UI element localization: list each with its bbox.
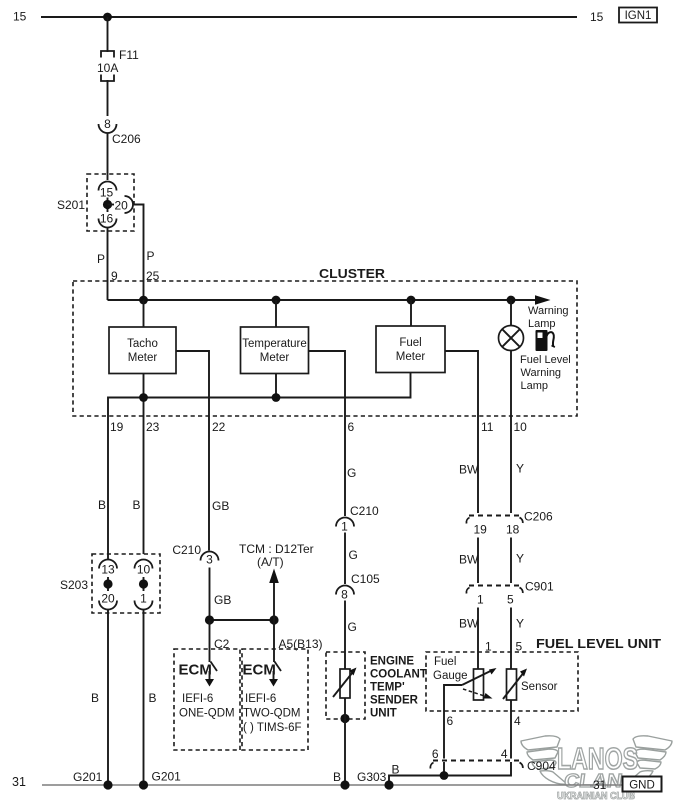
svg-text:15: 15 bbox=[590, 10, 604, 24]
svg-text:(A/T): (A/T) bbox=[257, 555, 284, 569]
svg-text:Warning: Warning bbox=[528, 305, 569, 317]
ground G303 bbox=[340, 770, 393, 790]
svg-text:S203: S203 bbox=[60, 578, 88, 592]
wire: lamp down to pin 10 bbox=[510, 351, 512, 514]
svg-text:8: 8 bbox=[104, 117, 111, 131]
S203 terminal 10 bbox=[135, 560, 153, 577]
svg-text:Y: Y bbox=[516, 552, 524, 566]
svg-text:4: 4 bbox=[501, 747, 508, 761]
connector C105 pin 8 bbox=[336, 572, 380, 602]
fuse F11 10A bbox=[97, 48, 139, 81]
splice pack S201 bbox=[57, 174, 134, 231]
ECM box (IEFI-6 TWO-QDM TIMS-6F) bbox=[242, 649, 308, 750]
svg-text:B: B bbox=[133, 498, 141, 512]
CLUSTER dashed enclosure bbox=[73, 281, 577, 416]
wire: fuel meter right output to pin 11 bbox=[445, 351, 478, 513]
wire: sender to G303 (B) bbox=[344, 698, 346, 785]
connector C210 pin 1 bbox=[336, 504, 379, 534]
svg-text:G: G bbox=[349, 548, 358, 562]
svg-text:Temperature: Temperature bbox=[242, 338, 307, 350]
svg-text:ECM: ECM bbox=[179, 662, 212, 679]
wire: cluster lower ground bus bbox=[108, 373, 411, 417]
svg-text:13: 13 bbox=[101, 563, 115, 577]
mechanical link gauge-sensor (dashed arrow) bbox=[463, 689, 493, 699]
svg-text:F11: F11 bbox=[119, 48, 139, 62]
wire: C210-3 to ECM junction (GB) bbox=[209, 568, 211, 621]
svg-text:G201: G201 bbox=[152, 770, 182, 784]
wire: S203-20 to ground G201 (B) bbox=[107, 610, 109, 786]
svg-text:C210: C210 bbox=[350, 504, 379, 518]
wire: bus to fuel meter bbox=[410, 300, 412, 326]
svg-text:15: 15 bbox=[100, 186, 114, 200]
svg-text:10: 10 bbox=[137, 563, 151, 577]
wire: junction down to ECM C2 bbox=[209, 620, 211, 662]
ECM box (IEFI-6 ONE-QDM) bbox=[174, 649, 240, 750]
svg-text:C210: C210 bbox=[172, 543, 201, 557]
svg-text:IEFI-6: IEFI-6 bbox=[245, 693, 276, 705]
FUEL LEVEL UNIT dashed enclosure bbox=[426, 652, 578, 711]
junction: pin6 / B line bbox=[440, 771, 449, 780]
svg-text:C904: C904 bbox=[527, 759, 556, 773]
svg-text:G: G bbox=[347, 466, 356, 480]
svg-text:G: G bbox=[348, 620, 357, 634]
Tacho Meter box bbox=[109, 327, 176, 374]
svg-text:P: P bbox=[97, 252, 105, 266]
fuel gauge (variable resistor) bbox=[462, 668, 497, 700]
svg-text:16: 16 bbox=[100, 212, 114, 226]
wire: C105 to coolant sender (G) bbox=[344, 601, 346, 670]
svg-text:IGN1: IGN1 bbox=[625, 10, 652, 22]
svg-text:Fuel: Fuel bbox=[399, 337, 421, 349]
svg-text:C206: C206 bbox=[112, 132, 141, 146]
S201 terminal 15 bbox=[99, 182, 117, 200]
svg-text:GB: GB bbox=[212, 499, 229, 513]
junction: bus / temperature feed bbox=[272, 296, 281, 305]
svg-text:19: 19 bbox=[474, 523, 488, 537]
ENGINE COOLANT TEMP SENDER UNIT box bbox=[326, 652, 427, 720]
ground G201 (right) bbox=[139, 770, 181, 790]
svg-text:P: P bbox=[147, 249, 155, 263]
connector C901 pins 1/5 bbox=[466, 580, 554, 607]
svg-text:20: 20 bbox=[115, 199, 129, 213]
svg-text:20: 20 bbox=[101, 592, 115, 606]
svg-text:31: 31 bbox=[593, 778, 607, 792]
junction: GB / TCM + A5 bbox=[269, 615, 278, 624]
S201 splice junction bbox=[103, 198, 114, 213]
wire: gauge pin 6 down to C904 bbox=[443, 711, 445, 759]
svg-text:Lamp: Lamp bbox=[528, 318, 556, 330]
junction: GB / ECM C2 bbox=[205, 615, 214, 624]
svg-text:C105: C105 bbox=[351, 572, 380, 586]
svg-text:Fuel Level: Fuel Level bbox=[520, 354, 571, 366]
coolant sender variable resistor bbox=[333, 668, 357, 699]
wire: bus to tacho meter bbox=[143, 300, 145, 327]
svg-text:22: 22 bbox=[212, 420, 226, 434]
svg-text:Sensor: Sensor bbox=[521, 681, 558, 693]
svg-text:BW: BW bbox=[459, 617, 479, 631]
arrow: bus to warning lamp feed bbox=[535, 295, 551, 304]
svg-text:4: 4 bbox=[514, 714, 521, 728]
svg-text:COOLANT: COOLANT bbox=[370, 669, 427, 681]
svg-text:6: 6 bbox=[348, 420, 355, 434]
svg-text:G201: G201 bbox=[73, 770, 103, 784]
svg-text:6: 6 bbox=[432, 747, 439, 761]
svg-text:GB: GB bbox=[214, 593, 231, 607]
svg-text:11: 11 bbox=[481, 420, 494, 434]
S201 terminal 20 bbox=[115, 196, 134, 213]
wire: sensor bottom to pin 4 bbox=[510, 700, 512, 759]
svg-text:Tacho: Tacho bbox=[127, 338, 158, 350]
svg-text:A5(B13): A5(B13) bbox=[279, 637, 323, 651]
svg-text:Y: Y bbox=[516, 462, 524, 476]
junction: sender to ground wire bbox=[340, 714, 349, 723]
svg-text:( ) TIMS-6F: ( ) TIMS-6F bbox=[243, 722, 302, 734]
wire: IGN1 feed rail bbox=[41, 16, 577, 18]
wire: S201-20 branch to cluster pin 25 (P) bbox=[133, 205, 144, 301]
svg-text:B: B bbox=[91, 691, 99, 705]
svg-text:Lamp: Lamp bbox=[521, 380, 549, 392]
svg-text:23: 23 bbox=[146, 420, 160, 434]
wire: temperature right output to pin 6 bbox=[309, 351, 346, 516]
svg-text:1: 1 bbox=[477, 593, 484, 607]
wire: C206 to splice S201 bbox=[107, 134, 109, 181]
svg-text:B: B bbox=[98, 498, 106, 512]
wire: junction down to ECM A5(B13) bbox=[273, 620, 275, 662]
svg-text:UNIT: UNIT bbox=[370, 708, 397, 720]
junction: bus / fuel meter feed bbox=[407, 296, 416, 305]
wire: temperature bottom to lower bus bbox=[275, 374, 277, 398]
wire: C210-1 to C105 (G) bbox=[344, 533, 346, 585]
svg-text:CLUSTER: CLUSTER bbox=[319, 266, 386, 281]
S203 left splice junction bbox=[103, 577, 112, 591]
svg-text:GND: GND bbox=[629, 780, 655, 792]
wire: C904-6 to splice on B line bbox=[443, 762, 445, 776]
wire: fuse to connector C206 pin 8 bbox=[107, 80, 109, 116]
svg-text:10: 10 bbox=[514, 420, 528, 434]
svg-text:5: 5 bbox=[507, 593, 514, 607]
svg-text:8: 8 bbox=[341, 588, 348, 602]
connector C206 pin 8 bbox=[99, 117, 142, 146]
junction: rail to fuse F11 bbox=[103, 13, 112, 22]
junction: bus / tacho feed bbox=[139, 296, 148, 305]
svg-text:TEMP': TEMP' bbox=[370, 682, 405, 694]
connector box GND bbox=[623, 777, 662, 792]
wire: S203-1 to ground G201 (B) bbox=[143, 610, 145, 786]
svg-text:B: B bbox=[392, 763, 400, 777]
wire: bus to warning lamp bbox=[510, 300, 512, 326]
wire: S201-16 down to cluster pin 9 (P) bbox=[107, 228, 109, 301]
Fuel Meter box bbox=[376, 326, 445, 373]
wire: junction link to TCM/A5 branch bbox=[210, 619, 275, 621]
svg-text:B: B bbox=[149, 691, 157, 705]
svg-text:1: 1 bbox=[140, 592, 147, 606]
decorative club logo (watermark) bbox=[521, 736, 672, 784]
svg-text:Y: Y bbox=[516, 617, 524, 631]
svg-text:ONE-QDM: ONE-QDM bbox=[179, 708, 235, 720]
svg-text:1: 1 bbox=[341, 520, 348, 534]
junction: lower bus / tacho bbox=[139, 393, 148, 402]
connector box IGN1 bbox=[619, 8, 657, 23]
svg-text:Gauge: Gauge bbox=[433, 670, 468, 682]
ground rail 31 bbox=[42, 784, 623, 786]
S203 terminal 1 bbox=[135, 592, 153, 610]
svg-text:SENDER: SENDER bbox=[370, 695, 419, 707]
svg-text:C901: C901 bbox=[525, 580, 554, 594]
wire: tacho right output to pin 22 bbox=[176, 351, 209, 551]
svg-text:15: 15 bbox=[13, 10, 27, 24]
connector C210 pin 3 bbox=[172, 543, 218, 567]
wire: C206-19 to C901-1 (BW) bbox=[477, 538, 479, 584]
svg-text:6: 6 bbox=[447, 714, 454, 728]
warning lamp (bulb) bbox=[499, 326, 524, 351]
wire: tacho bottom to pin 23 bbox=[143, 374, 145, 555]
svg-text:ECM: ECM bbox=[243, 662, 276, 679]
wire: C901-1 to fuel gauge pin 1 (BW) bbox=[477, 608, 479, 670]
svg-text:3: 3 bbox=[206, 553, 213, 567]
svg-text:FUEL LEVEL UNIT: FUEL LEVEL UNIT bbox=[536, 636, 661, 651]
junction: bus / lamp feed bbox=[507, 296, 516, 305]
ground G201 (left) bbox=[73, 770, 113, 790]
svg-text:IEFI-6: IEFI-6 bbox=[182, 693, 213, 705]
svg-text:10A: 10A bbox=[97, 61, 118, 75]
S203 right splice junction bbox=[139, 577, 148, 591]
svg-text:19: 19 bbox=[110, 420, 124, 434]
connector C206 pins 19/18 bbox=[466, 510, 553, 537]
connector C904 pins 6/4 bbox=[430, 747, 556, 773]
S203 terminal 13 bbox=[99, 560, 117, 577]
wire: rail down to fuse bbox=[107, 17, 109, 52]
svg-text:B: B bbox=[333, 770, 341, 784]
svg-text:Meter: Meter bbox=[128, 352, 158, 364]
wire: C904-4 to ground drop (B) bbox=[389, 762, 511, 785]
wire: gauge wiper to pin 6 bbox=[444, 685, 462, 711]
fuel pump icon bbox=[536, 330, 555, 351]
svg-text:S201: S201 bbox=[57, 198, 85, 212]
junction: lower bus / temperature bbox=[272, 393, 281, 402]
svg-text:BW: BW bbox=[459, 553, 479, 567]
wire: cluster supply bus bbox=[108, 299, 537, 301]
S201 terminal 16 bbox=[99, 212, 117, 228]
wire: pin 19 down to S203 (B) bbox=[107, 416, 109, 560]
svg-text:ENGINE: ENGINE bbox=[370, 656, 414, 668]
svg-text:TWO-QDM: TWO-QDM bbox=[243, 708, 300, 720]
svg-text:Meter: Meter bbox=[396, 351, 426, 363]
sensor (variable resistor) bbox=[503, 669, 527, 701]
svg-text:BW: BW bbox=[459, 463, 479, 477]
splice pack S203 bbox=[60, 554, 160, 613]
wire: C206-18 to C901-5 (Y) bbox=[510, 538, 512, 584]
Temperature Meter box bbox=[241, 327, 309, 374]
svg-text:G303: G303 bbox=[357, 770, 387, 784]
svg-text:C206: C206 bbox=[524, 510, 553, 524]
wire: C901-5 to sensor pin 5 (Y) bbox=[510, 608, 512, 670]
svg-text:Warning: Warning bbox=[521, 367, 562, 379]
arrow: branch up to TCM bbox=[269, 569, 279, 621]
svg-text:Meter: Meter bbox=[260, 352, 290, 364]
wire: bus to temperature meter bbox=[275, 300, 277, 327]
svg-text:TCM : D12Ter: TCM : D12Ter bbox=[239, 542, 314, 556]
S203 terminal 20 bbox=[99, 592, 117, 610]
svg-text:Fuel: Fuel bbox=[434, 656, 456, 668]
svg-text:31: 31 bbox=[12, 775, 26, 789]
svg-text:18: 18 bbox=[506, 523, 520, 537]
